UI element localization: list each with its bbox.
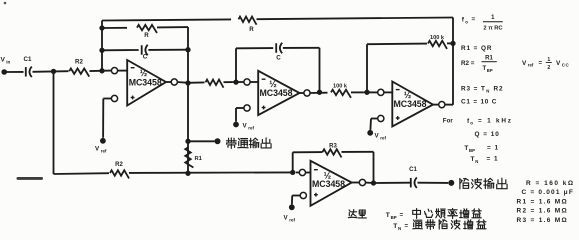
svg-text:T: T [471,156,475,163]
svg-text:C: C [143,54,148,61]
svg-text:R1 = 1.6 MΩ: R1 = 1.6 MΩ [517,198,569,205]
svg-text:2: 2 [547,65,550,71]
svg-text:= 1 kHz: = 1 kHz [478,118,513,125]
svg-text:=: = [472,16,476,23]
svg-text:C: C [276,55,281,62]
svg-text:BP: BP [469,148,475,153]
svg-text:BP: BP [487,68,493,73]
svg-text:CC: CC [562,63,570,68]
svg-text:1: 1 [547,57,550,63]
svg-text:o: o [465,19,468,24]
svg-text:R2 =: R2 = [461,60,475,67]
svg-text:MC3458: MC3458 [312,179,345,189]
svg-text:ref: ref [289,217,295,222]
svg-text:N: N [398,226,401,231]
svg-text:T: T [386,212,390,219]
svg-text:V: V [1,57,6,64]
svg-text:For: For [443,118,454,125]
svg-text:R: R [144,32,149,39]
svg-text:MC3458: MC3458 [129,77,162,87]
svg-text:C1: C1 [24,56,32,63]
svg-text:R2: R2 [494,86,504,93]
svg-text:C = 0.001 μF: C = 0.001 μF [522,189,575,196]
svg-text:=: = [400,211,404,218]
svg-text:C1 = 10 C: C1 = 10 C [461,98,497,105]
svg-text:ref: ref [380,135,386,140]
svg-text:=: = [539,59,543,66]
svg-text:T: T [393,223,397,230]
svg-text:ref: ref [101,148,107,153]
svg-text:V: V [522,60,527,67]
svg-text:in: in [6,60,10,65]
svg-text:N: N [486,89,489,94]
svg-text:ref: ref [248,125,254,130]
svg-text:MC3458: MC3458 [260,88,293,98]
svg-text:BP: BP [391,215,397,220]
svg-text:=: = [405,223,409,230]
svg-text:T: T [464,145,468,152]
svg-text:R2: R2 [75,59,83,66]
svg-text:N: N [475,159,478,164]
svg-text:R2: R2 [115,162,123,168]
svg-text:= 1: = 1 [487,156,499,163]
svg-text:100 k: 100 k [333,84,348,90]
svg-text:R = 160 kΩ: R = 160 kΩ [526,180,575,187]
svg-text:V: V [556,60,561,67]
svg-text:100 k: 100 k [430,35,445,41]
svg-text:R3 = 1.6 MΩ: R3 = 1.6 MΩ [517,217,569,224]
svg-text:R1: R1 [485,55,493,61]
svg-text:R3: R3 [329,144,337,150]
svg-text:R3 = T: R3 = T [461,86,486,93]
svg-text:C1: C1 [409,167,417,173]
svg-text:2 π RC: 2 π RC [483,26,503,32]
svg-text:= 1: = 1 [487,145,499,152]
svg-text:Q = 10: Q = 10 [475,131,500,138]
svg-text:R: R [249,26,254,33]
svg-text:o: o [470,121,473,126]
svg-text:ref: ref [528,63,534,68]
svg-text:MC3458: MC3458 [394,99,427,109]
svg-text:R2 = 1.6 MΩ: R2 = 1.6 MΩ [517,208,569,215]
svg-text:R1 = QR: R1 = QR [461,45,492,52]
svg-text:R1: R1 [195,156,203,162]
